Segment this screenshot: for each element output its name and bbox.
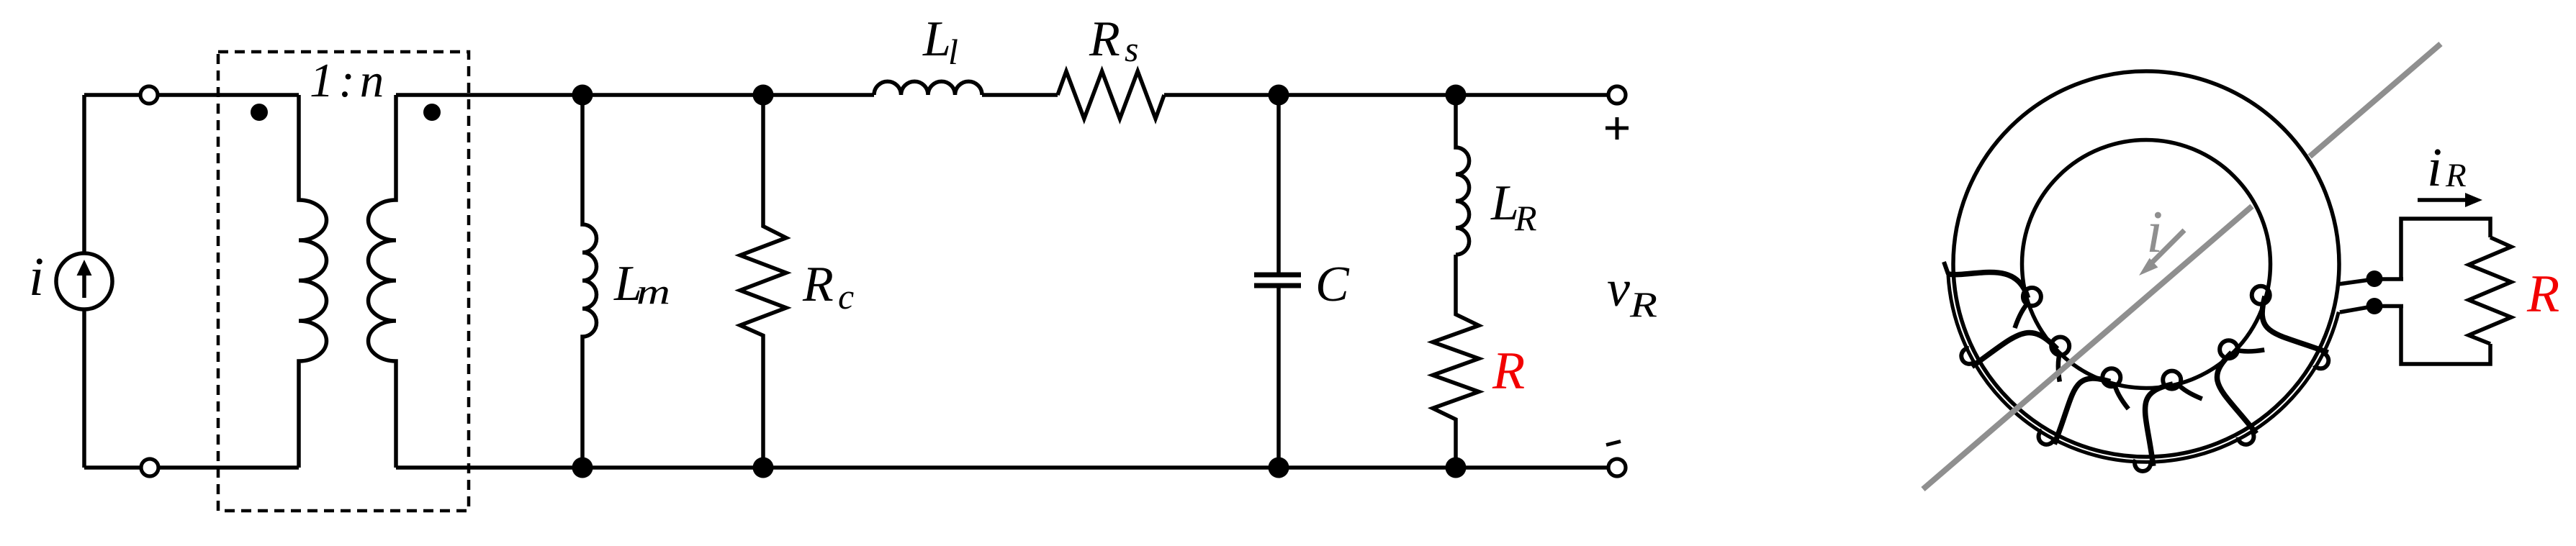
svg-text:i: i xyxy=(29,247,44,307)
transformer primary winding xyxy=(299,95,327,468)
lead node dot lower xyxy=(2366,298,2383,314)
svg-text:R: R xyxy=(802,257,834,312)
winding turn 3 face wire xyxy=(2054,378,2110,444)
capacitor C xyxy=(1254,95,1301,468)
svg-text:R: R xyxy=(1514,198,1537,238)
winding turn 5 face wire xyxy=(2217,352,2256,434)
label - sign xyxy=(1606,442,1621,445)
winding turn 5 outer rim bump xyxy=(2238,430,2254,445)
wire left vertical below current source xyxy=(82,309,86,468)
winding turn 2 face wire xyxy=(1972,332,2058,366)
polarity dot primary xyxy=(251,104,268,121)
lead upper from toroid to R network xyxy=(2338,279,2403,284)
node junction (1060,650) xyxy=(753,458,774,478)
svg-text:i: i xyxy=(2146,199,2163,265)
node junction (2022,132) xyxy=(1446,85,1467,106)
svg-text:R: R xyxy=(1629,284,1657,324)
svg-text:m: m xyxy=(636,271,670,311)
gray current line lower segment (through hole) xyxy=(1923,206,2252,489)
svg-text:1:n: 1:n xyxy=(310,54,389,107)
resistor R network box lower part xyxy=(2401,306,2490,364)
resistor R network box upper part xyxy=(2401,219,2490,279)
winding turn 4 inner rim loop xyxy=(2163,371,2181,389)
resistor Rs xyxy=(1058,71,1164,119)
gray current line upper segment (behind torus) xyxy=(2310,44,2441,157)
resistor Rc xyxy=(740,95,786,468)
svg-text:i: i xyxy=(2427,137,2442,198)
node junction (1776,650) xyxy=(1269,458,1289,478)
winding turn 5 back wire stub xyxy=(2235,350,2264,352)
polarity dot secondary xyxy=(423,104,441,121)
winding turn 1 back wire stub xyxy=(2015,302,2030,328)
lead lower from winding to R network xyxy=(2340,306,2403,313)
winding turn 5 inner rim loop xyxy=(2220,340,2238,358)
inductor Ll xyxy=(874,81,982,95)
svg-text:C: C xyxy=(1315,257,1350,312)
node junction (809,132) xyxy=(572,85,593,106)
node junction (1060,132) xyxy=(753,85,774,106)
terminal top-left (open circle) xyxy=(140,86,158,104)
arrow for iR xyxy=(2418,193,2482,207)
svg-text:L: L xyxy=(922,12,951,67)
toroid outer circle xyxy=(1953,71,2339,457)
winding turn 6 face wire xyxy=(2262,296,2328,352)
winding turn 2 inner rim loop xyxy=(2051,337,2069,355)
node junction (809,650) xyxy=(572,458,593,478)
winding turn 6 inner rim loop xyxy=(2252,286,2270,304)
resistor R (toroid load) zigzag xyxy=(2469,237,2511,344)
inductor Lm xyxy=(582,95,597,468)
terminal - output (open circle) xyxy=(1608,459,1626,476)
svg-text:l: l xyxy=(948,32,958,72)
winding turn 4 back wire stub xyxy=(2177,383,2202,399)
lead node dot upper xyxy=(2366,270,2383,287)
winding turn 3 back wire stub xyxy=(2115,383,2129,409)
gray arrow for current i xyxy=(2139,230,2184,276)
winding turn 1 face wire xyxy=(1948,272,2028,298)
svg-text:c: c xyxy=(838,276,854,317)
wire top bus Ll to Rs xyxy=(982,93,1058,97)
winding turn 4 face wire xyxy=(2145,384,2173,466)
node junction (1776,132) xyxy=(1269,85,1289,106)
wire top bus secondary to Ll xyxy=(396,93,874,97)
svg-text:R: R xyxy=(1089,12,1120,67)
winding turn 2 back wire stub xyxy=(2058,352,2061,381)
transformer dashed enclosure xyxy=(218,52,469,511)
winding turn 6 outer rim bump xyxy=(2314,352,2328,368)
current source i xyxy=(56,253,112,309)
toroid inner circle xyxy=(2022,140,2271,388)
transformer secondary winding xyxy=(369,95,397,468)
svg-text:R: R xyxy=(1492,342,1525,401)
terminal bottom-left (open circle) xyxy=(141,459,158,476)
winding turn 4 outer rim bump xyxy=(2135,460,2151,471)
svg-text:s: s xyxy=(1125,29,1138,69)
winding turn 3 inner rim loop xyxy=(2102,368,2120,386)
label + sign xyxy=(1606,117,1629,140)
node junction (2022,650) xyxy=(1446,458,1467,478)
wire top bus Rs to + terminal xyxy=(1164,93,1617,97)
svg-text:v: v xyxy=(1607,260,1630,317)
winding turn 1 inner rim loop xyxy=(2023,288,2041,306)
winding turn 3 outer rim bump xyxy=(2039,430,2055,445)
wire bottom bus xyxy=(396,465,1617,470)
winding return wire along outer rim xyxy=(1948,273,2339,462)
wire top-left from source to transformer primary xyxy=(84,93,299,97)
winding turn 2 outer rim bump xyxy=(1961,348,1976,364)
svg-text:R: R xyxy=(2445,157,2467,194)
svg-text:R: R xyxy=(2526,265,2559,324)
wire left vertical above current source xyxy=(82,95,86,253)
wire bottom-left from source to transformer primary xyxy=(84,465,299,470)
terminal + output (open circle) xyxy=(1608,86,1626,104)
winding start corner hook xyxy=(1944,262,1948,274)
resistor R (load) xyxy=(1433,255,1479,468)
inductor LR xyxy=(1456,95,1469,255)
